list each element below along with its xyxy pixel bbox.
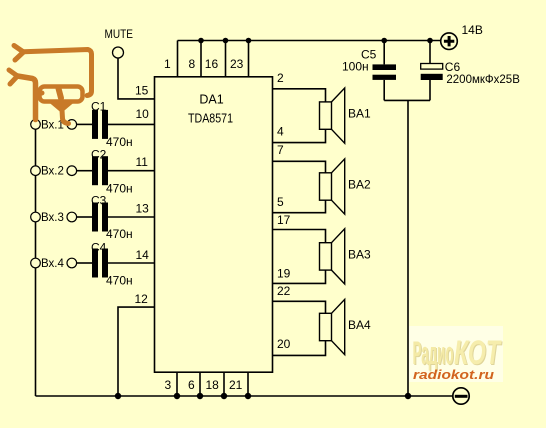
svg-text:4: 4 bbox=[277, 125, 284, 139]
svg-text:21: 21 bbox=[229, 378, 243, 392]
wire pin23 top bbox=[248, 41, 250, 77]
svg-text:Радио: Радио bbox=[413, 335, 454, 371]
watermark radiokot bbox=[409, 326, 503, 382]
svg-text:19: 19 bbox=[277, 267, 291, 281]
wire C6 branch upper bbox=[429, 41, 431, 64]
svg-text:5: 5 bbox=[277, 195, 284, 209]
svg-text:radiokot.ru: radiokot.ru bbox=[413, 367, 494, 382]
wire pin4 to BA1 bbox=[273, 129, 326, 142]
wire bottom ground bus bbox=[36, 395, 453, 397]
svg-text:DA1: DA1 bbox=[199, 93, 223, 107]
svg-text:17: 17 bbox=[277, 213, 291, 227]
svg-text:100н: 100н bbox=[342, 60, 369, 74]
svg-text:Вх.4: Вх.4 bbox=[41, 258, 64, 270]
wire left ground bus bbox=[35, 124, 37, 396]
terminal minus bbox=[453, 388, 469, 404]
svg-text:BA3: BA3 bbox=[348, 248, 371, 262]
wire pin20 to BA4 bbox=[273, 341, 326, 356]
wire input3 to C3 bbox=[77, 216, 93, 218]
annotation orange down arrow to Вх.1 bbox=[52, 89, 71, 124]
wire C5-C6 join bbox=[384, 99, 430, 101]
wire pin2 to BA1 bbox=[273, 89, 326, 102]
capacitor C3 bbox=[91, 194, 133, 242]
capacitor C5 bbox=[342, 48, 396, 80]
wire pin14 bbox=[108, 262, 155, 264]
op-amp IC U1 DA1 TDA8571 body bbox=[155, 77, 273, 372]
wire pin10 bbox=[108, 123, 155, 125]
annotation hand-drawn orange arrow 2 bbox=[9, 70, 42, 120]
svg-text:470н: 470н bbox=[106, 135, 133, 149]
annotation orange loop around input bbox=[40, 87, 83, 102]
svg-text:15: 15 bbox=[135, 84, 149, 98]
svg-text:BA2: BA2 bbox=[348, 178, 371, 192]
svg-text:Вх.1: Вх.1 bbox=[41, 119, 64, 131]
svg-text:Вх.3: Вх.3 bbox=[41, 212, 64, 224]
speaker BA3 bbox=[320, 229, 345, 284]
wire pin19 to BA3 bbox=[273, 270, 326, 283]
svg-text:C4: C4 bbox=[91, 241, 107, 255]
svg-text:10: 10 bbox=[136, 107, 150, 121]
svg-text:23: 23 bbox=[230, 57, 244, 71]
svg-text:C1: C1 bbox=[91, 100, 107, 114]
svg-text:20: 20 bbox=[277, 337, 291, 351]
terminal +14V bbox=[441, 23, 483, 50]
wire input1 to C1 bbox=[77, 123, 93, 125]
svg-text:8: 8 bbox=[189, 57, 196, 71]
speaker BA2 bbox=[320, 159, 345, 214]
input terminal Вх.4 bbox=[31, 258, 77, 270]
wire C5 branch upper bbox=[383, 41, 385, 65]
wire pin6 bottom bbox=[199, 372, 201, 396]
svg-text:11: 11 bbox=[136, 155, 149, 169]
svg-text:470н: 470н bbox=[106, 227, 133, 241]
input terminal Вх.3 bbox=[31, 212, 77, 224]
capacitor C6 electrolytic bbox=[421, 60, 521, 86]
wire pin18 bottom bbox=[223, 372, 225, 396]
wire MUTE to pin15 bbox=[118, 58, 155, 99]
svg-text:2200мкФх25В: 2200мкФх25В bbox=[446, 74, 520, 86]
svg-text:1: 1 bbox=[164, 57, 171, 71]
svg-text:14В: 14В bbox=[462, 23, 483, 37]
wire pin13 bbox=[108, 216, 155, 218]
annotation hand-drawn orange arrow 1 bbox=[14, 46, 92, 96]
wire top supply bus bbox=[178, 40, 441, 42]
svg-text:2: 2 bbox=[277, 71, 284, 85]
svg-text:16: 16 bbox=[205, 57, 219, 71]
svg-text:BA1: BA1 bbox=[348, 107, 371, 121]
svg-text:470н: 470н bbox=[106, 274, 133, 288]
wire pin1 top bbox=[177, 41, 179, 77]
svg-text:MUTE: MUTE bbox=[105, 29, 134, 41]
wire pin21 bottom bbox=[247, 372, 249, 396]
input terminal Вх.1 bbox=[31, 119, 77, 131]
speaker BA4 bbox=[320, 299, 345, 354]
wire input4 to C4 bbox=[77, 262, 93, 264]
wire input2 to C2 bbox=[77, 170, 93, 172]
wire pin11 bbox=[108, 170, 155, 172]
wire pin22 to BA4 bbox=[273, 301, 326, 313]
svg-text:13: 13 bbox=[136, 202, 150, 216]
svg-text:C3: C3 bbox=[91, 194, 107, 208]
svg-text:14: 14 bbox=[136, 248, 150, 262]
junction dots top bus bbox=[198, 38, 433, 44]
input terminal Вх.2 bbox=[31, 166, 77, 178]
svg-text:C6: C6 bbox=[445, 60, 461, 74]
svg-text:BA4: BA4 bbox=[348, 318, 371, 332]
svg-text:3: 3 bbox=[165, 378, 172, 392]
wire ground drop bbox=[407, 100, 409, 396]
svg-text:7: 7 bbox=[277, 143, 284, 157]
svg-text:TDA8571: TDA8571 bbox=[188, 112, 233, 126]
wire C6 branch lower bbox=[429, 80, 431, 100]
MUTE terminal bbox=[105, 29, 134, 58]
wire pin3 bottom bbox=[176, 372, 178, 396]
svg-text:12: 12 bbox=[135, 292, 149, 306]
svg-text:470н: 470н bbox=[106, 182, 133, 196]
capacitor C4 bbox=[91, 241, 133, 288]
wire pin5 to BA2 bbox=[273, 200, 326, 213]
svg-text:C2: C2 bbox=[91, 148, 107, 162]
svg-text:18: 18 bbox=[206, 378, 220, 392]
wire pin17 to BA3 bbox=[273, 230, 326, 243]
capacitor C2 bbox=[91, 148, 133, 196]
wire pin8 top bbox=[200, 41, 202, 77]
wire pin16 top bbox=[225, 41, 227, 77]
speaker BA1 bbox=[320, 88, 345, 143]
svg-text:6: 6 bbox=[188, 378, 195, 392]
svg-text:Вх.2: Вх.2 bbox=[41, 166, 64, 178]
wire pin12 bbox=[118, 307, 155, 396]
wire C5 branch lower bbox=[383, 80, 385, 101]
svg-text:22: 22 bbox=[277, 284, 291, 298]
capacitor C1 bbox=[91, 100, 133, 150]
wire pin7 to BA2 bbox=[273, 161, 326, 173]
junction dots bottom bus bbox=[115, 393, 411, 399]
